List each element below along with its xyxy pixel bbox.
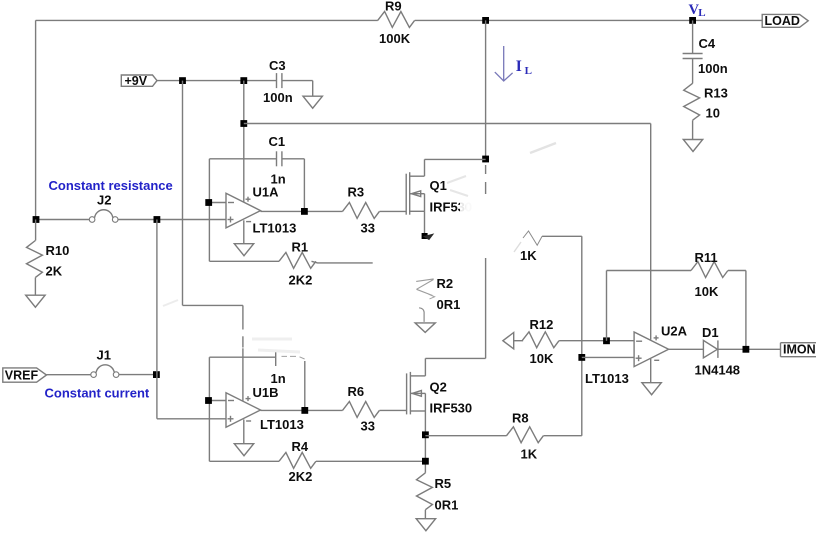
svg-text:LT1013: LT1013: [253, 221, 297, 236]
svg-text:10: 10: [706, 106, 720, 121]
svg-text:R3: R3: [348, 185, 365, 200]
svg-text:VREF: VREF: [5, 369, 39, 383]
svg-text:Constant current: Constant current: [45, 386, 150, 401]
svg-text:1n: 1n: [271, 371, 286, 386]
svg-text:R10: R10: [46, 243, 70, 258]
svg-text:LOAD: LOAD: [765, 14, 800, 28]
svg-text:33: 33: [361, 221, 375, 236]
svg-text:U1B: U1B: [253, 385, 279, 400]
svg-text:Constant resistance: Constant resistance: [49, 178, 173, 193]
svg-text:R13: R13: [704, 86, 728, 101]
svg-text:I: I: [516, 58, 522, 75]
svg-text:R8: R8: [512, 411, 529, 426]
svg-text:1N4148: 1N4148: [695, 363, 741, 378]
svg-text:100n: 100n: [698, 61, 728, 76]
svg-text:U2A: U2A: [661, 324, 688, 339]
svg-text:C1: C1: [269, 134, 286, 149]
svg-text:1K: 1K: [521, 447, 538, 462]
svg-text:R2: R2: [437, 276, 454, 291]
svg-text:C4: C4: [699, 36, 716, 51]
svg-text:R12: R12: [530, 317, 554, 332]
svg-text:10K: 10K: [695, 284, 719, 299]
svg-text:100K: 100K: [379, 31, 411, 46]
svg-text:10K: 10K: [530, 351, 554, 366]
svg-text:J1: J1: [97, 348, 111, 363]
svg-text:2K2: 2K2: [289, 273, 313, 288]
svg-text:LT1013: LT1013: [585, 371, 629, 386]
svg-text:R6: R6: [348, 384, 365, 399]
svg-text:2K2: 2K2: [289, 469, 313, 484]
svg-text:1K: 1K: [520, 248, 537, 263]
svg-text:LT1013: LT1013: [260, 417, 304, 432]
svg-text:U1A: U1A: [253, 185, 280, 200]
svg-text:R9: R9: [385, 0, 402, 14]
svg-text:J2: J2: [97, 193, 111, 208]
svg-text:IRF530: IRF530: [430, 401, 473, 416]
svg-text:33: 33: [361, 419, 375, 434]
svg-text:C3: C3: [269, 58, 286, 73]
svg-text:L: L: [698, 7, 705, 19]
svg-text:100n: 100n: [263, 90, 293, 105]
svg-text:D1: D1: [702, 325, 719, 340]
svg-text:0R1: 0R1: [435, 498, 459, 513]
svg-text:Q1: Q1: [430, 178, 447, 193]
svg-text:R11: R11: [695, 250, 718, 265]
svg-text:0R1: 0R1: [437, 297, 461, 312]
svg-text:Q2: Q2: [430, 380, 447, 395]
svg-text:2K: 2K: [46, 264, 63, 279]
svg-text:IMON: IMON: [783, 343, 816, 357]
svg-text:L: L: [525, 65, 532, 77]
svg-text:R1: R1: [292, 240, 309, 255]
svg-text:+9V: +9V: [125, 74, 148, 88]
svg-text:R4: R4: [292, 439, 309, 454]
svg-text:R5: R5: [435, 476, 452, 491]
